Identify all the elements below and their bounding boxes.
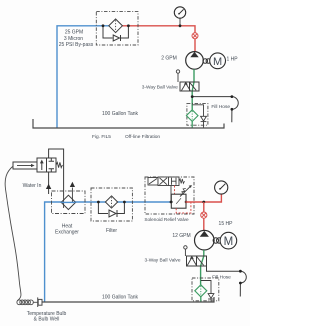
- wire blue into filter diamond: [96, 25, 110, 27]
- FF2 check valve: [208, 294, 214, 299]
- filter F2 element (diamond): [105, 196, 117, 208]
- svg-text:25 PSI By-pass: 25 PSI By-pass: [59, 42, 94, 48]
- node junction left of filter F1: [102, 24, 105, 27]
- motor M2: [220, 232, 237, 249]
- SRV directional valve squares: [158, 177, 179, 186]
- HX water out arrow: [70, 182, 75, 187]
- node fill hose hook bottom (bottom): [239, 282, 242, 285]
- wire red pump riser: [203, 202, 205, 231]
- svg-text:Solenoid Relief Valve: Solenoid Relief Valve: [144, 217, 189, 222]
- svg-text:100 Gallon Tank: 100 Gallon Tank: [102, 295, 139, 301]
- svg-text:1 HP: 1 HP: [226, 57, 238, 63]
- wire fill hose line (top): [192, 96, 232, 98]
- node fill hose tap (top): [191, 95, 194, 98]
- FF1 check valve: [201, 116, 207, 121]
- svg-text:Exchanger: Exchanger: [55, 230, 79, 236]
- ball valve BV1 body: [180, 82, 199, 91]
- pump P1: [186, 52, 204, 70]
- svg-text:Water In: Water In: [23, 183, 42, 189]
- SRV solenoid box: [148, 178, 158, 186]
- svg-text:100 Gallon Tank: 100 Gallon Tank: [102, 111, 139, 117]
- temperature bulb coil: [17, 300, 38, 305]
- SRV adjustable spring: [180, 185, 192, 197]
- bulb well fitting: [38, 297, 42, 307]
- tank T1: [33, 119, 224, 128]
- wire blue main suction line: [45, 202, 172, 302]
- water valve WV spring: [56, 162, 62, 167]
- gauge PG2: [215, 181, 228, 194]
- SRV red drain loop: [176, 203, 191, 214]
- node pump tap: [202, 201, 205, 204]
- capillary tube to bulb: [5, 166, 21, 301]
- wire blue through HX: [61, 201, 75, 203]
- svg-text:25 GPM: 25 GPM: [65, 30, 83, 36]
- coupling P1/M1: [203, 59, 211, 64]
- filter F2 dashed enclosure: [91, 188, 132, 221]
- wire red pressure line from SRV: [186, 194, 222, 202]
- node junction right of F2: [123, 201, 126, 204]
- fill filter FF2 element (green diamond): [195, 285, 207, 297]
- wire water inlet: [48, 172, 50, 194]
- node junction right of filter F1: [127, 24, 130, 27]
- tank T2: [42, 297, 214, 302]
- svg-text:3-Way Ball Valve: 3-Way Ball Valve: [142, 85, 178, 91]
- node relief inlet: [170, 201, 173, 204]
- SRV drain line to suction: [170, 186, 172, 203]
- wire green pump P2 to ball valve BV2: [201, 250, 204, 285]
- wire green FF2 to tank: [200, 297, 202, 302]
- pump P2: [195, 230, 215, 250]
- fill filter FF2 dashed enclosure: [192, 278, 219, 301]
- water inlet arrow: [46, 184, 51, 189]
- svg-text:& Bulb Well: & Bulb Well: [34, 316, 60, 322]
- filter F2 bypass check valve: [109, 210, 116, 217]
- svg-text:M: M: [213, 56, 222, 68]
- wire green FF1 to tank: [191, 121, 193, 128]
- svg-text:2 GPM: 2 GPM: [161, 56, 177, 62]
- filter F2 bypass line: [98, 202, 124, 214]
- wire green pump P1 to ball valve BV1: [192, 69, 194, 110]
- heat exchanger HX element (diamond): [61, 195, 75, 209]
- motor M1: [210, 53, 226, 69]
- label 25 GPM / 3 Micron / 25 PSI By-pass: [59, 30, 94, 49]
- svg-text:3 Micron: 3 Micron: [64, 36, 83, 42]
- gauge PG1 stem: [179, 18, 181, 26]
- node gauge PG1 tap: [179, 24, 182, 27]
- svg-text:Filter: Filter: [106, 228, 117, 234]
- water valve WV body: [37, 158, 56, 172]
- node SRV drain junction: [170, 201, 173, 204]
- wire water pilot loop to heat exchanger: [49, 149, 64, 197]
- filter F1 element (diamond with dotted line): [109, 19, 123, 33]
- svg-text:15 HP: 15 HP: [219, 221, 234, 227]
- filter F1 dashed enclosure: [96, 12, 138, 45]
- node fill hose hook top (bottom): [239, 270, 242, 273]
- ball valve BV2 lever: [184, 246, 187, 256]
- ball valve BV2 body: [187, 256, 207, 266]
- svg-text:3-Way Ball Valve: 3-Way Ball Valve: [145, 258, 181, 264]
- node fill hose hook top (top): [231, 95, 234, 98]
- node fill hose hook bottom (top): [231, 108, 234, 111]
- node relief outlet: [185, 201, 188, 204]
- filter F1 bypass line: [103, 26, 128, 38]
- solenoid relief valve SRV dashed enclosure: [145, 177, 194, 214]
- svg-text:Off-line Filtration: Off-line Filtration: [125, 134, 160, 140]
- FF2 check valve branch: [201, 281, 211, 303]
- HX water pass lines: [64, 188, 73, 209]
- fill filter FF1 element (green diamond): [186, 110, 198, 122]
- SRV valve spring: [179, 179, 185, 183]
- node junction left of F2: [97, 201, 100, 204]
- svg-text:12 GPM: 12 GPM: [172, 233, 190, 239]
- filter F1 bypass check valve: [113, 35, 119, 41]
- shutoff (circle-X) V2 red: [201, 212, 207, 218]
- svg-text:Fig. FIL5: Fig. FIL5: [92, 134, 111, 140]
- water valve WV actuator (temperature): [13, 162, 37, 169]
- FF1 check valve branch: [192, 105, 203, 128]
- wire fill hose line (bottom): [207, 266, 241, 271]
- fill hose hook (top): [232, 97, 238, 123]
- svg-text:Fill Hose: Fill Hose: [212, 275, 231, 281]
- shutoff (circle-X) V1 red: [192, 33, 198, 39]
- fill filter FF1 dashed enclosure: [187, 104, 208, 126]
- fill hose hook (bottom): [240, 271, 246, 296]
- wire pressure red (filter F1 to pump P1): [121, 26, 195, 52]
- coupling P2/M2: [213, 238, 222, 243]
- gauge PG1: [174, 7, 185, 18]
- svg-text:Fill Hose: Fill Hose: [211, 104, 230, 110]
- SRV red pilot from solenoid valve: [174, 186, 176, 196]
- heat exchanger HX dash-dot enclosure: [52, 191, 86, 214]
- ball valve BV1 lever: [176, 70, 179, 82]
- svg-text:M: M: [224, 236, 234, 248]
- wire suction blue (tank to filter F1): [57, 26, 96, 128]
- SRV relief cartridge body: [171, 194, 186, 208]
